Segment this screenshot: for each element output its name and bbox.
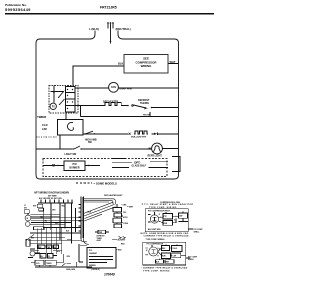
svg-text:170649: 170649: [104, 273, 115, 277]
svg-text:P/O COMPRESSOR PROT.: P/O COMPRESSOR PROT.: [148, 211, 171, 213]
svg-text:ORN: ORN: [52, 210, 55, 212]
svg-text:LIM: LIM: [42, 127, 47, 131]
light switch: [73, 148, 74, 149]
svg-text:4-PIN: 4-PIN: [123, 216, 128, 219]
svg-text:M: M: [52, 105, 55, 109]
burner wire: [43, 165, 64, 167]
svg-text:M: M: [27, 218, 29, 220]
svg-text:TYPE COMP. WIRING: TYPE COMP. WIRING: [146, 239, 166, 241]
optional group bracket: [172, 157, 180, 172]
compressor wiring box: [124, 55, 168, 74]
compressor motor A: [150, 215, 158, 223]
svg-text:RED: RED: [121, 244, 125, 246]
P/O burner box: [64, 161, 85, 171]
mullion heater coil: [134, 131, 148, 134]
svg-text:R: R: [159, 214, 161, 216]
svg-text:TIMER: TIMER: [37, 115, 47, 119]
svg-text:YEL: YEL: [123, 212, 126, 214]
svg-text:ORN: ORN: [67, 256, 70, 258]
svg-text:DEF HEATER: DEF HEATER: [103, 101, 118, 104]
cabinet box: [87, 248, 116, 269]
svg-text:SHELL: SHELL: [194, 231, 201, 233]
arrow connector: [152, 133, 155, 135]
light switch box: [37, 204, 43, 208]
evap fan motor: [109, 82, 119, 92]
wire timer to cold control: [65, 113, 67, 120]
junction dot: [127, 105, 129, 107]
svg-text:DEF TIMER: DEF TIMER: [48, 196, 57, 198]
plug prong 2: [110, 22, 112, 28]
compressor motor B: [149, 247, 158, 256]
svg-text:HIGH AMB: HIGH AMB: [85, 138, 97, 141]
relay block B: [162, 246, 170, 251]
relay row: [40, 254, 46, 259]
harness diagonals: [84, 202, 116, 221]
svg-text:P/O COMPRESSOR: P/O COMPRESSOR: [147, 244, 164, 246]
svg-text:SW: SW: [24, 208, 27, 210]
timer internal wire: [51, 91, 65, 93]
cold control box: [58, 120, 84, 136]
svg-text:LIGHT SW: LIGHT SW: [65, 153, 77, 156]
svg-text:CABINET: CABINET: [89, 252, 98, 255]
bottom box row: [35, 260, 44, 265]
harness bundle verticals: [81, 197, 84, 240]
defrost heater coil: [104, 103, 122, 106]
svg-text:REFR LIGHT: REFR LIGHT: [148, 155, 163, 158]
cold control sensor coil: [67, 122, 73, 130]
svg-text:BLK WHT RED: BLK WHT RED: [148, 229, 161, 231]
svg-text:WHT: WHT: [31, 238, 34, 240]
svg-text:RUN: RUN: [162, 256, 166, 258]
optional items dashed box: [43, 159, 167, 177]
timer contact 1: [59, 92, 64, 98]
svg-text:GRN: GRN: [55, 223, 58, 225]
wire compressor to right edge WHT: [168, 63, 179, 65]
wires into cabinet: [81, 239, 89, 244]
svg-text:FRT21JR5: FRT21JR5: [100, 6, 117, 10]
junction tick: [149, 112, 151, 117]
svg-text:DEF HEATER ASSY: DEF HEATER ASSY: [104, 194, 123, 197]
connector chain: [113, 208, 122, 212]
cold control drop wire: [59, 135, 61, 149]
timer conn box: [98, 230, 106, 234]
terminal strip line: [38, 202, 73, 204]
svg-text:RUN: RUN: [164, 223, 168, 225]
compressor box A: [145, 209, 188, 232]
light rung: [36, 148, 73, 150]
defrost thermostat switch: [132, 105, 134, 107]
svg-text:BLK: BLK: [66, 231, 70, 233]
svg-text:CLD: CLD: [36, 263, 40, 265]
svg-text:WHT: WHT: [33, 205, 36, 207]
timer terminal strip: [66, 87, 76, 113]
svg-text:(NEUTRAL): (NEUTRAL): [116, 27, 131, 31]
svg-text:RLY: RLY: [41, 256, 44, 258]
svg-text:BLU: BLU: [57, 251, 60, 253]
svg-text:WHT: WHT: [129, 207, 134, 209]
compressor box B: [143, 242, 186, 265]
harness top runs: [84, 199, 116, 205]
svg-text:BLK/WHT: BLK/WHT: [118, 240, 127, 242]
svg-text:M: M: [146, 250, 148, 252]
box B right callout: [186, 257, 190, 259]
wire compressor to left: [73, 66, 124, 86]
left tall box: [26, 239, 30, 246]
svg-text:BLK: BLK: [118, 61, 123, 65]
svg-text:• CURRENT TYPE RELAY & OVERLOA: • CURRENT TYPE RELAY & OVERLOAD: [141, 267, 188, 270]
timer contact 2: [60, 99, 65, 105]
ground line: [35, 266, 92, 268]
box A right callout: [188, 228, 193, 230]
misc wire labels: [31, 205, 70, 258]
svg-text:CURRENT TYPE RELAY & OVERLOAD: CURRENT TYPE RELAY & OVERLOAD: [144, 235, 190, 238]
wire line side drop: [90, 31, 95, 40]
timer motor M: [50, 103, 56, 109]
svg-text:WHT: WHT: [166, 262, 170, 264]
svg-text:(OR BLK): (OR BLK): [92, 269, 100, 271]
middle rung: [81, 106, 179, 117]
defrost heater rung: [75, 105, 104, 107]
opt wires right: [112, 158, 126, 160]
svg-text:THERM.: THERM.: [140, 102, 149, 105]
svg-text:HTR SW: HTR SW: [143, 114, 150, 116]
svg-text:NOTE: SOME MODELS USE A RUN CA: NOTE: SOME MODELS USE A RUN CAP.: [141, 232, 190, 235]
svg-text:P/O: P/O: [89, 250, 93, 252]
note some models: [76, 182, 92, 184]
svg-text:CLD: CLD: [42, 123, 48, 127]
ground wire arrow: [110, 29, 112, 45]
splice x: [129, 133, 131, 135]
timer motor wire and arrow: [53, 86, 55, 103]
refrigerator light bulb: [152, 143, 163, 154]
mesh ladder: [28, 228, 82, 254]
svg-text:GRN: GRN: [123, 204, 128, 206]
svg-text:OV: OV: [48, 256, 50, 258]
dotted line under cold control: [36, 136, 57, 138]
splice x on light rung: [149, 148, 151, 150]
svg-text:WIRING: WIRING: [141, 64, 153, 68]
svg-text:YEL: YEL: [44, 221, 47, 223]
header rule: [5, 13, 214, 15]
svg-text:TYPE COMP. WIRING: TYPE COMP. WIRING: [143, 271, 170, 273]
svg-text:CAP: CAP: [173, 255, 177, 258]
mullion heater rung: [83, 133, 128, 135]
svg-text:BLK ORN RED YEL WHT GRN: BLK ORN RED YEL WHT GRN: [39, 198, 62, 200]
evap fan rung: [75, 87, 109, 89]
svg-text:OVLD: OVLD: [172, 248, 177, 250]
wire thermostat to right edge: [152, 107, 179, 109]
run capacitor block A: [179, 213, 188, 218]
mesh box: [34, 227, 45, 230]
plug prong 1: [107, 22, 109, 28]
svg-text:ART WIRING DIAGRAM SHOWN: ART WIRING DIAGRAM SHOWN: [34, 192, 69, 195]
svg-text:(OPT): (OPT): [134, 162, 140, 164]
wire neutral side drop: [118, 31, 123, 40]
svg-text:R: R: [158, 255, 160, 257]
high amb switch: [84, 133, 85, 134]
svg-text:DEF: DEF: [39, 247, 42, 249]
svg-text:FAN: FAN: [111, 86, 116, 89]
svg-text:REL: REL: [162, 248, 165, 250]
plug prong 3: [112, 22, 114, 28]
PTC relay block A: [163, 214, 173, 220]
svg-text:WIRING: WIRING: [89, 265, 96, 267]
svg-text:WHT: WHT: [170, 60, 176, 64]
defrost timer dashed box: [49, 86, 78, 114]
svg-text:CAP: CAP: [179, 214, 183, 217]
svg-text:L (BLK): L (BLK): [89, 27, 99, 31]
freezer fan motor: [25, 215, 31, 221]
svg-text:PTC: PTC: [164, 216, 168, 218]
svg-text:GLASS SHLF: GLASS SHLF: [132, 165, 147, 168]
svg-text:GRN (GRN: GRN (GRN: [66, 269, 76, 271]
defrost limiter row: [38, 245, 45, 249]
svg-text:RED: RED: [118, 250, 122, 252]
svg-text:S: S: [174, 219, 175, 221]
bus verticals: [37, 203, 71, 254]
svg-text:SW: SW: [88, 142, 93, 144]
svg-text:CONN: CONN: [123, 223, 129, 225]
svg-text:P.T.C. RELAY START & RUN CAPAC: P.T.C. RELAY START & RUN CAPACITOR: [142, 203, 194, 206]
svg-text:P/O: P/O: [72, 163, 76, 166]
svg-text:5995356449: 5995356449: [5, 7, 31, 12]
svg-text:BURNER: BURNER: [69, 166, 80, 169]
outer cabinet box: [36, 39, 179, 179]
svg-text:SHELL: SHELL: [188, 259, 195, 261]
left mesh wires: [28, 208, 84, 232]
svg-text:EVAP. FAN: EVAP. FAN: [120, 88, 132, 91]
svg-text:MULLION HTR: MULLION HTR: [131, 137, 146, 139]
svg-text:LT: LT: [24, 205, 26, 207]
compressor circle: [30, 251, 35, 256]
condenser fan motor: [25, 222, 30, 227]
svg-text:TIMER: TIMER: [46, 263, 52, 265]
svg-text:= SOME MODELS: = SOME MODELS: [94, 181, 118, 185]
